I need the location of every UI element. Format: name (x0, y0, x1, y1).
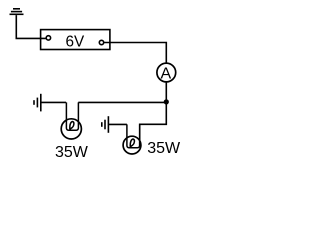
svg-text:6V: 6V (65, 33, 85, 50)
svg-text:35W: 35W (55, 144, 89, 161)
svg-text:A: A (160, 66, 171, 83)
svg-text:35W: 35W (147, 140, 181, 157)
